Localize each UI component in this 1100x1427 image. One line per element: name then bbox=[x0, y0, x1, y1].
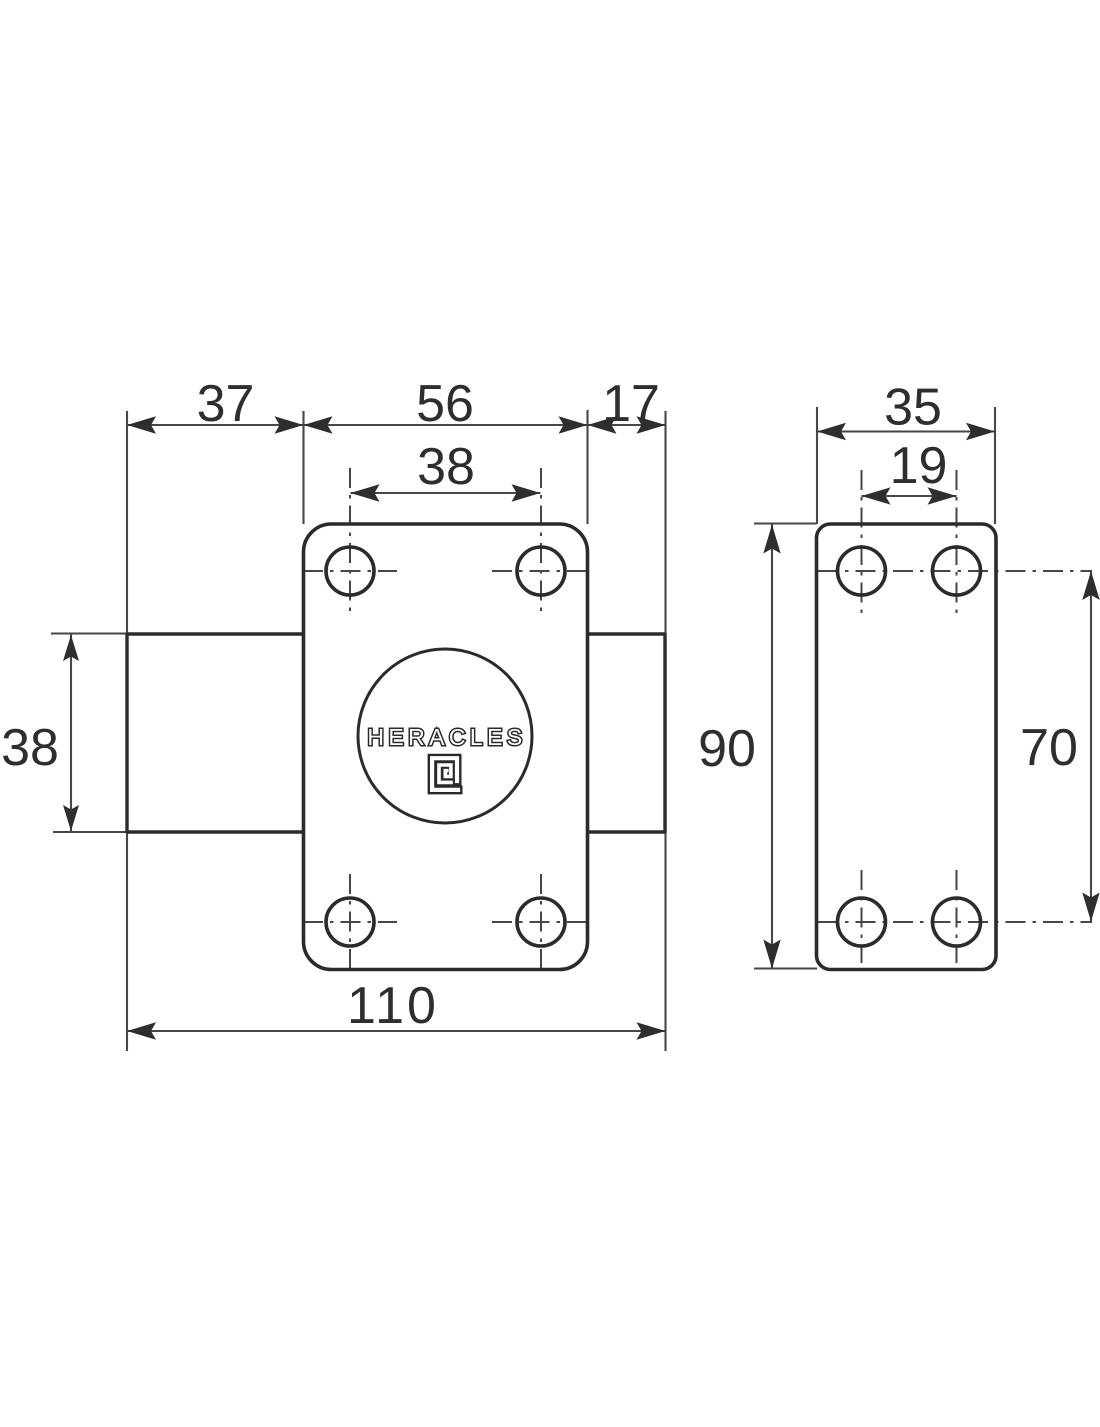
svg-text:HERACLES: HERACLES bbox=[367, 724, 526, 750]
svg-text:17: 17 bbox=[602, 375, 660, 433]
svg-text:38: 38 bbox=[417, 438, 475, 496]
svg-text:110: 110 bbox=[347, 977, 439, 1035]
svg-text:56: 56 bbox=[416, 375, 474, 433]
svg-text:35: 35 bbox=[884, 379, 942, 437]
svg-text:19: 19 bbox=[890, 437, 948, 495]
svg-text:37: 37 bbox=[197, 375, 255, 433]
svg-text:90: 90 bbox=[698, 720, 756, 778]
svg-text:70: 70 bbox=[1020, 719, 1078, 777]
svg-text:38: 38 bbox=[1, 719, 59, 777]
